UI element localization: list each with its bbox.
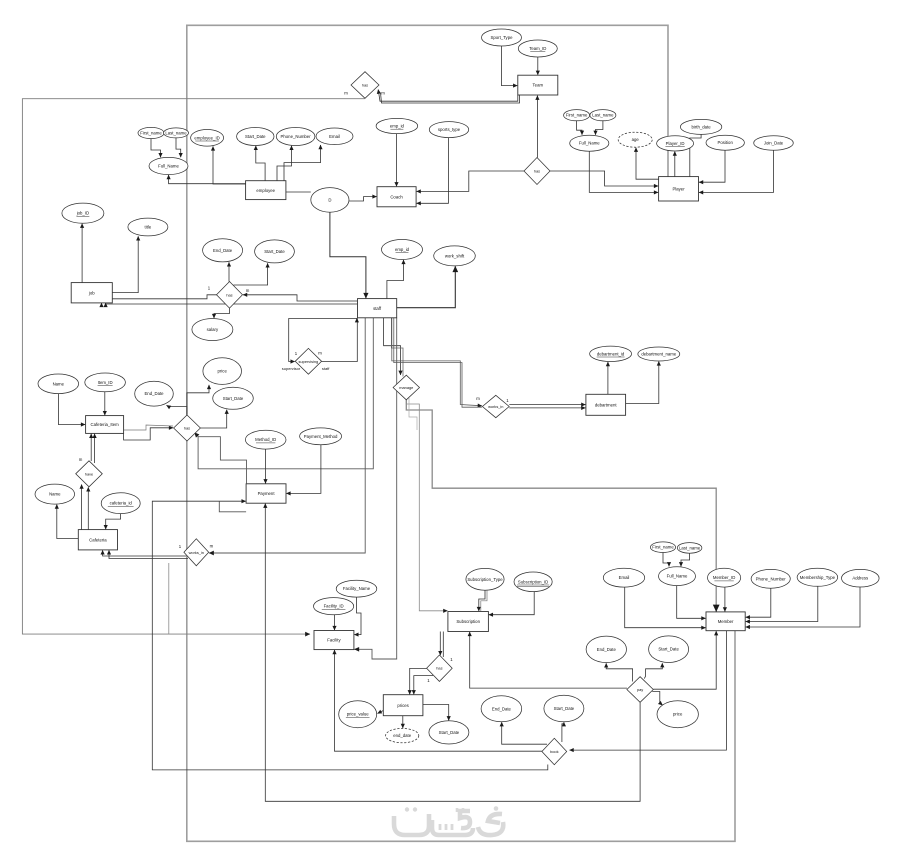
svg-text:Facility_ID: Facility_ID — [324, 604, 344, 609]
svg-text:Sport_Type: Sport_Type — [491, 35, 514, 40]
svg-text:supervising: supervising — [299, 359, 319, 364]
svg-text:m: m — [210, 544, 214, 549]
svg-text:Subscription: Subscription — [456, 619, 480, 624]
svg-text:Payment: Payment — [258, 491, 276, 496]
svg-text:Player: Player — [672, 186, 685, 191]
svg-text:Cafeteria: Cafeteria — [89, 537, 107, 542]
svg-text:emp_id: emp_id — [390, 124, 405, 129]
svg-text:Full_Name: Full_Name — [158, 164, 179, 169]
svg-text:Start_Date: Start_Date — [554, 706, 575, 711]
svg-text:End_Date: End_Date — [144, 391, 164, 396]
svg-text:Member: Member — [718, 619, 734, 624]
svg-text:staff: staff — [322, 366, 330, 371]
svg-text:m: m — [246, 288, 250, 293]
svg-text:cafeteria_id: cafeteria_id — [110, 501, 133, 506]
svg-text:price: price — [673, 712, 683, 717]
svg-text:book: book — [550, 749, 558, 754]
svg-text:Team_ID: Team_ID — [529, 46, 546, 51]
svg-text:work_shift: work_shift — [445, 253, 465, 258]
svg-text:m: m — [318, 350, 322, 355]
svg-text:age: age — [632, 137, 640, 142]
svg-text:has: has — [226, 292, 232, 297]
svg-text:Method_ID: Method_ID — [255, 437, 276, 442]
svg-text:employee_ID: employee_ID — [194, 135, 219, 140]
svg-text:End_Date: End_Date — [597, 647, 617, 652]
svg-text:Start_Date: Start_Date — [439, 730, 460, 735]
svg-text:End_Date: End_Date — [213, 248, 233, 253]
svg-text:staff: staff — [373, 306, 382, 311]
svg-text:Facility_Name: Facility_Name — [343, 586, 371, 591]
svg-text:Start_Date: Start_Date — [223, 396, 244, 401]
svg-text:job_ID: job_ID — [76, 211, 89, 216]
svg-text:price: price — [218, 369, 228, 374]
svg-text:Email: Email — [619, 575, 630, 580]
svg-text:salary: salary — [207, 327, 219, 332]
svg-text:debartment_name: debartment_name — [641, 352, 676, 357]
svg-text:have: have — [85, 471, 93, 476]
svg-text:m: m — [79, 457, 83, 462]
svg-text:debartment: debartment — [595, 402, 618, 407]
svg-text:Name: Name — [49, 492, 61, 497]
svg-text:Membership_Type: Membership_Type — [800, 575, 836, 580]
svg-text:emp_id: emp_id — [395, 247, 410, 252]
svg-text:Address: Address — [852, 576, 868, 581]
svg-text:End_Date: End_Date — [492, 706, 512, 711]
svg-text:debartment_id: debartment_id — [597, 351, 625, 356]
svg-text:Start_Date: Start_Date — [245, 134, 266, 139]
svg-text:Full_Name: Full_Name — [667, 574, 688, 579]
svg-text:works_in: works_in — [488, 404, 503, 409]
svg-text:Facility: Facility — [327, 638, 341, 643]
svg-text:end_date: end_date — [393, 733, 412, 738]
svg-text:price_value: price_value — [347, 712, 370, 717]
svg-text:Player_ID: Player_ID — [666, 141, 685, 146]
svg-text:has: has — [534, 169, 540, 174]
svg-text:birth_date: birth_date — [692, 124, 712, 129]
svg-text:Email: Email — [329, 134, 340, 139]
svg-text:has: has — [184, 426, 190, 431]
svg-text:Subscription_Type: Subscription_Type — [467, 577, 503, 582]
svg-text:Start_Date: Start_Date — [264, 249, 285, 254]
svg-text:First_name: First_name — [652, 545, 674, 550]
svg-text:Start_Date: Start_Date — [658, 647, 679, 652]
svg-text:works_in: works_in — [189, 550, 204, 555]
svg-text:Payment_Method: Payment_Method — [304, 434, 338, 439]
svg-text:Name: Name — [53, 381, 65, 386]
svg-text:Join_Date: Join_Date — [764, 141, 784, 146]
svg-text:Last_name: Last_name — [679, 545, 701, 550]
svg-text:Subscription_ID: Subscription_ID — [518, 579, 548, 584]
svg-text:manage: manage — [399, 385, 413, 390]
svg-text:Team: Team — [533, 83, 544, 88]
svg-text:Full_Name: Full_Name — [579, 141, 600, 146]
svg-text:D: D — [328, 197, 331, 202]
svg-text:Item_ID: Item_ID — [98, 380, 113, 385]
svg-text:has: has — [362, 83, 368, 88]
svg-text:Position: Position — [718, 140, 734, 145]
svg-text:pay: pay — [637, 687, 643, 692]
svg-text:m: m — [344, 91, 348, 96]
svg-text:First_name: First_name — [566, 113, 588, 118]
svg-text:prices: prices — [397, 703, 408, 708]
svg-text:Last_name: Last_name — [165, 130, 187, 135]
svg-text:employee: employee — [256, 188, 275, 193]
svg-text:Phone_Number: Phone_Number — [281, 134, 312, 139]
svg-text:supervisor: supervisor — [282, 366, 301, 371]
svg-text:Last_name: Last_name — [592, 113, 614, 118]
svg-text:First_name: First_name — [140, 131, 162, 136]
svg-text:m: m — [476, 396, 480, 401]
svg-text:Member_ID: Member_ID — [713, 575, 735, 580]
svg-text:Cafeteria_Item: Cafeteria_Item — [91, 422, 120, 427]
svg-text:title: title — [145, 225, 152, 230]
svg-text:Phone_Number: Phone_Number — [756, 576, 787, 581]
svg-text:m: m — [381, 91, 385, 96]
svg-text:Coach: Coach — [390, 194, 403, 199]
svg-text:has: has — [436, 666, 442, 671]
svg-text:sports_type: sports_type — [438, 127, 461, 132]
svg-text:job: job — [88, 290, 95, 295]
